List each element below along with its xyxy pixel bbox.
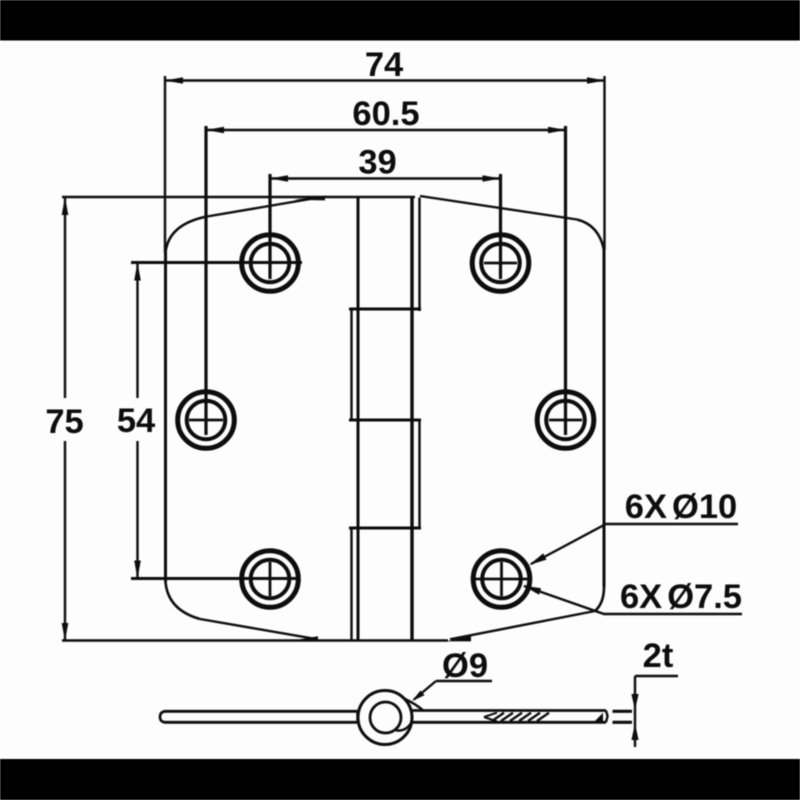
knuckle divider 2: [349, 419, 421, 422]
arrow 54 top: [134, 263, 141, 281]
barrel right line: [410, 197, 413, 641]
hole top-left inner: [251, 244, 290, 283]
cross mid-right horizontal: [549, 419, 582, 422]
plate right segment bottom line: [410, 721, 606, 724]
arrow D9: [412, 691, 425, 702]
wedge where bottom edge meets extension line: [292, 636, 318, 641]
hole top-right outer: [472, 235, 529, 292]
arrow 60.5 right: [548, 127, 566, 134]
hole top-left outer: [242, 235, 299, 292]
svg-text:Ø9: Ø9: [442, 647, 488, 685]
hole bottom-left outer: [242, 551, 299, 608]
leader line 6XD7.5: [524, 586, 742, 614]
arrow 6XD10: [529, 553, 547, 565]
arrow 74 left: [165, 77, 183, 84]
2t top horizontal: [635, 675, 678, 678]
left leaf bottom edge (sloped): [200, 619, 314, 639]
knuckle line left (segment 2): [350, 308, 352, 421]
extension 75 top (horizontal): [62, 196, 415, 198]
svg-text:6XØ7.5: 6XØ7.5: [620, 578, 742, 616]
plate junction tick at eye: [356, 711, 358, 722]
arrow 75 bottom: [62, 623, 69, 641]
plate right end cap: [606, 711, 608, 723]
hole bottom-right outer: [473, 551, 530, 608]
svg-text:75: 75: [45, 403, 83, 441]
barrel left line: [357, 197, 360, 641]
wedge where top edge meets extension line: [294, 196, 325, 201]
svg-text:39: 39: [358, 144, 396, 182]
arrow 60.5 left: [206, 127, 224, 134]
hole mid-left inner: [187, 401, 226, 440]
dim line 75 (vertical, gap for text): [64, 197, 66, 398]
hole bottom-left inner: [251, 560, 290, 599]
2t extension bottom: [613, 721, 633, 724]
cross bottom-left horizontal (with 54 bottom extension): [131, 577, 296, 580]
left leaf top edge (sloped): [207, 198, 319, 217]
svg-text:54: 54: [117, 402, 155, 440]
extension 60.5 right / mid-right hole axis: [564, 126, 567, 435]
cross mid-left horizontal: [189, 419, 223, 422]
2t arrow up: [631, 724, 638, 741]
plate right segment top line: [410, 709, 606, 712]
right leaf right edge: [603, 250, 606, 587]
knuckle line left (segment 4): [350, 527, 352, 641]
leader D9 slant: [414, 681, 436, 700]
spiral tail of rolled leaf: [396, 723, 411, 731]
hatch small triangle near right end: [595, 713, 603, 721]
hatch stroke 3: [510, 713, 522, 721]
svg-text:2t: 2t: [643, 637, 674, 675]
right leaf top edge (sloped): [420, 196, 577, 220]
extension 74 right: [603, 76, 605, 250]
svg-text:74: 74: [365, 46, 403, 84]
extension 39 right / top-right hole axis: [499, 174, 502, 279]
plate left segment bottom line: [164, 721, 358, 724]
right leaf top-right corner radius: [577, 220, 604, 251]
extension 74 left: [164, 76, 166, 253]
hatch stroke 1: [492, 713, 504, 721]
leader line 6XD10: [531, 524, 738, 564]
plate left segment top line: [164, 710, 358, 713]
hatch stroke 5: [528, 713, 540, 721]
right leaf bottom edge (sloped): [450, 611, 595, 639]
knuckle divider 1: [349, 308, 421, 311]
2t extension top: [613, 710, 633, 713]
dim line 60.5: [206, 129, 566, 131]
left leaf bottom-left corner radius: [166, 582, 201, 619]
2t arrow down: [631, 694, 638, 710]
arrow 75 top: [62, 197, 69, 215]
bottom black bar: [0, 759, 800, 800]
knuckle line right (segment 1): [418, 198, 420, 312]
cross top-left horizontal (with 54 top extension): [131, 261, 302, 264]
dim line 74: [165, 79, 605, 81]
arrow 39 left: [270, 175, 288, 182]
cross bottom-right vertical: [500, 562, 503, 596]
hatch stroke 4: [519, 713, 531, 721]
cross bottom-left vertical: [269, 562, 272, 596]
hole mid-left outer: [178, 392, 235, 449]
extension 39 left / top-left hole axis: [268, 174, 271, 279]
hole top-right inner: [481, 244, 520, 283]
knuckle divider 3: [349, 527, 421, 530]
hatch section outline (taper): [484, 713, 497, 722]
eye inner circle: [370, 702, 401, 733]
eye to plate merge curve: [404, 699, 423, 711]
cross bottom-right horizontal: [471, 578, 532, 581]
arrow 6XD7.5: [523, 586, 541, 595]
cross top-right horizontal: [484, 262, 517, 265]
eye outer circle: [358, 691, 412, 745]
svg-text:6XØ10: 6XØ10: [625, 488, 737, 526]
extension 75 bottom (horizontal): [62, 639, 448, 641]
leader D9 underline: [436, 680, 492, 682]
hatch stroke 2: [501, 713, 513, 721]
plate left end cap: [160, 711, 165, 722]
arrow 74 right: [587, 77, 605, 84]
top black bar: [0, 0, 800, 41]
wedge where right bottom edge meets extension line: [446, 636, 471, 641]
svg-text:60.5: 60.5: [352, 95, 419, 133]
extension 60.5 left / mid-left hole axis: [204, 126, 207, 435]
knuckle line right (segment 3): [418, 420, 420, 529]
hole bottom-right inner: [482, 560, 521, 599]
arrow 54 bottom: [134, 561, 141, 579]
hole mid-right outer: [537, 392, 594, 449]
hatch stroke 6: [537, 713, 549, 721]
right leaf bottom-right corner radius: [595, 587, 604, 611]
dim line 54 (vertical, gap for text): [136, 263, 138, 399]
left leaf left edge: [164, 252, 167, 582]
arrow 39 right: [483, 175, 501, 182]
left leaf top-left corner radius: [166, 217, 208, 253]
hole mid-right inner: [546, 401, 585, 440]
dim line 39: [270, 177, 501, 179]
2t vertical line: [634, 676, 636, 747]
